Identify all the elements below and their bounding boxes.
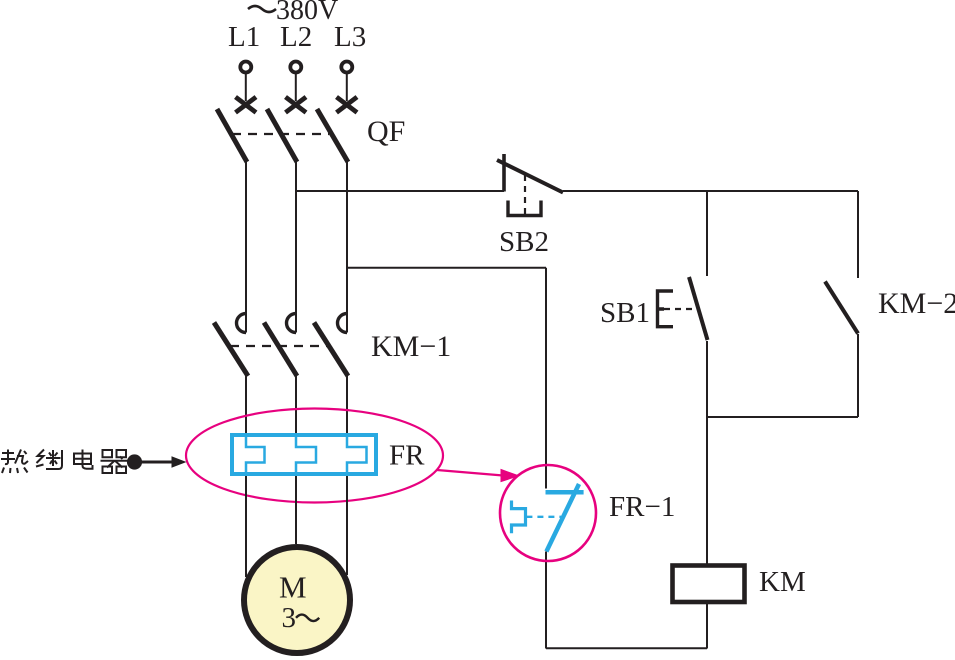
svg-text:SB1: SB1 <box>600 297 650 329</box>
svg-text:M: M <box>279 570 307 605</box>
svg-text:L1: L1 <box>228 21 260 53</box>
svg-text:KM−1: KM−1 <box>371 330 451 363</box>
svg-text:3: 3 <box>282 602 297 634</box>
svg-text:SB2: SB2 <box>499 226 549 258</box>
svg-text:QF: QF <box>367 115 405 148</box>
svg-text:L2: L2 <box>280 21 312 53</box>
svg-text:L3: L3 <box>334 21 366 53</box>
svg-text:KM−2: KM−2 <box>878 287 955 320</box>
svg-text:FR: FR <box>389 440 425 472</box>
svg-text:FR−1: FR−1 <box>609 491 675 523</box>
svg-text:KM: KM <box>759 566 806 598</box>
